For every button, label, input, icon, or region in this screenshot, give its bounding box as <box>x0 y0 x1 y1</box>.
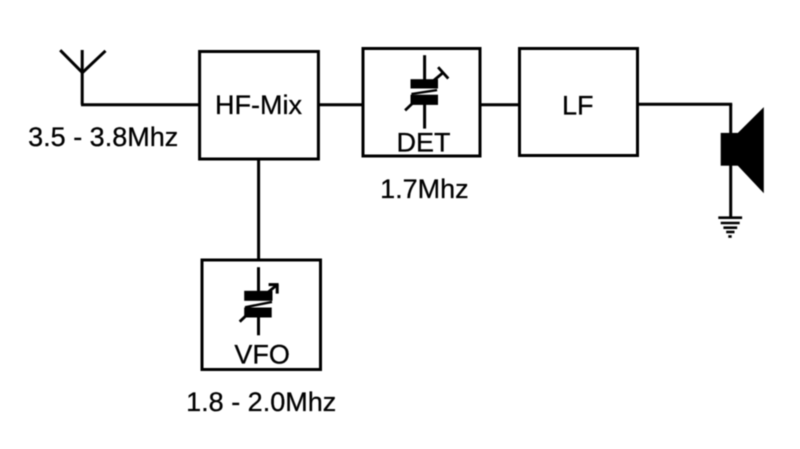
svg-text:DET: DET <box>397 127 451 157</box>
block VFO <box>202 260 321 370</box>
svg-text:LF: LF <box>562 91 594 121</box>
wire LF to speaker <box>638 103 732 106</box>
wire DET to LF <box>480 103 520 106</box>
wire speaker to ground <box>729 104 732 217</box>
wire antenna to HF-Mix <box>81 103 199 106</box>
antenna ANT <box>60 50 105 105</box>
block LF <box>520 49 638 156</box>
block HF-Mix <box>200 52 319 160</box>
svg-text:1.7Mhz: 1.7Mhz <box>380 174 469 204</box>
svg-text:3.5 - 3.8Mhz: 3.5 - 3.8Mhz <box>28 122 178 152</box>
wire HF-Mix to VFO <box>257 159 260 260</box>
block DET <box>363 49 480 157</box>
speaker LS <box>721 107 764 193</box>
variable-capacitor symbol in VFO <box>240 267 279 335</box>
svg-text:HF-Mix: HF-Mix <box>215 90 302 120</box>
ground <box>718 218 742 237</box>
svg-text:VFO: VFO <box>234 340 290 370</box>
variable-capacitor symbol in DET <box>405 55 448 128</box>
svg-text:1.8 - 2.0Mhz: 1.8 - 2.0Mhz <box>186 387 336 417</box>
wire HF-Mix to DET <box>319 103 363 106</box>
